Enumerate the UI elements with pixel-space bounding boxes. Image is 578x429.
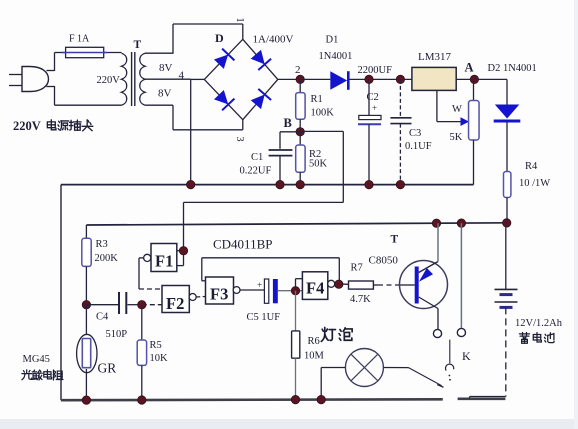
svg-text:F4: F4: [306, 279, 324, 298]
label 10M: [304, 351, 325, 362]
label C2: [367, 92, 379, 103]
svg-text:C5 1UF: C5 1UF: [247, 312, 281, 323]
label K: [462, 349, 471, 363]
label 10/1W: [519, 178, 550, 189]
wire C5 to F4: [278, 290, 303, 292]
label R6: [308, 336, 320, 347]
wire R3 to C4 node: [85, 266, 87, 304]
capacitor C3 0.1UF: [390, 118, 411, 185]
transistor Q1 C8050 body: [400, 261, 448, 309]
node B junction: [296, 128, 304, 136]
svg-text:50K: 50K: [309, 159, 328, 170]
bridge diode top-right: [251, 50, 271, 70]
transformer T primary winding: [122, 53, 127, 105]
svg-text:8V: 8V: [158, 88, 172, 100]
label 4.7K: [350, 294, 371, 305]
bridge diode top-left: [214, 49, 234, 69]
junction C2 top: [365, 75, 373, 83]
wire secondary top to bridge node 1: [145, 24, 243, 54]
switch K contact: [446, 364, 454, 370]
label 200K: [95, 253, 119, 264]
label F 1A: [69, 34, 90, 45]
label 8V upper: [159, 62, 173, 74]
svg-text:10 /1W: 10 /1W: [519, 178, 550, 189]
junction C2-ground: [365, 180, 373, 188]
label C8050: [369, 255, 399, 267]
label C1: [251, 152, 263, 163]
junction feedback-R7: [335, 280, 343, 288]
resistor R6 10M: [292, 331, 300, 358]
junction C1-ground: [276, 180, 284, 188]
wire GR bottom: [85, 369, 87, 400]
junction C3 top: [396, 75, 404, 83]
wire C4 to F2 input: [128, 304, 163, 306]
label 1A/400V: [253, 34, 294, 46]
wire C4 left: [86, 304, 118, 306]
svg-text:T: T: [391, 234, 399, 246]
label 0.22UF: [240, 166, 272, 177]
wire plug to fuse and primary: [47, 53, 122, 106]
ground rail: [61, 185, 474, 401]
svg-text:R7: R7: [351, 263, 363, 274]
label R5: [150, 340, 162, 351]
svg-text:C4: C4: [96, 312, 109, 323]
transistor Q1 arrow: [419, 268, 433, 282]
svg-text:10M: 10M: [304, 351, 325, 362]
svg-text:T: T: [134, 39, 142, 51]
junction F4 input: [291, 287, 299, 295]
label 12V/1.2Ah: [515, 318, 563, 329]
junction C4 node: [82, 301, 90, 309]
wire R5 top: [141, 305, 143, 340]
svg-text:K: K: [462, 349, 471, 363]
svg-text:C8050: C8050: [369, 255, 399, 267]
switch K pole wire: [449, 340, 451, 364]
svg-text:12V/1.2Ah: 12V/1.2Ah: [515, 318, 563, 329]
resistor R4 10/1W: [504, 172, 511, 198]
svg-text:R1: R1: [311, 94, 323, 105]
label 5K: [450, 132, 463, 143]
svg-text:10K: 10K: [150, 353, 169, 364]
plug P1 (220V mains plug): [9, 67, 49, 92]
transformer T secondary winding: [140, 53, 145, 105]
bridge diode bottom-right: [251, 89, 271, 109]
svg-text:F 1A: F 1A: [69, 34, 90, 45]
label guangmin dianzu: [22, 370, 63, 380]
lamp DS1 bulb: [345, 349, 383, 387]
svg-text:1: 1: [234, 18, 245, 23]
svg-text:C1: C1: [251, 152, 263, 163]
label 0.1UF: [405, 141, 432, 152]
wire F4 out to R7: [335, 283, 349, 286]
label B: [284, 116, 292, 130]
nand gate F1: [144, 244, 177, 272]
fuse F 1A: [62, 47, 107, 57]
wire R1 to node B: [299, 119, 301, 132]
wire F1 out to F2: [139, 258, 162, 289]
junction collector-rail: [432, 219, 440, 227]
junction R4-rail: [503, 219, 511, 227]
capacitor C5 1UF electrolytic: [257, 279, 278, 303]
wire battery top: [505, 223, 507, 289]
wire C3 top: [399, 79, 401, 117]
svg-text:F3: F3: [210, 285, 228, 304]
nand gate F3: [206, 277, 241, 304]
nand gate F2: [162, 286, 196, 314]
label node 2: [295, 64, 301, 76]
svg-text:100K: 100K: [311, 108, 335, 119]
wire GR top: [85, 305, 87, 334]
svg-text:0.22UF: 0.22UF: [240, 166, 272, 177]
svg-text:2200UF: 2200UF: [358, 65, 393, 76]
transformer T core: [132, 52, 135, 106]
wire R4 to plus rail: [506, 198, 508, 223]
node A junction: [470, 75, 478, 83]
svg-text:+: +: [257, 281, 262, 291]
svg-text:F1: F1: [155, 252, 173, 271]
wire battery bottom: [470, 307, 506, 398]
wire D1 to LM317: [350, 78, 412, 80]
wire F3 out to C5: [240, 289, 264, 291]
label LM317: [418, 51, 452, 63]
bridge rectifier wires: [191, 39, 301, 119]
svg-text:510P: 510P: [106, 329, 128, 340]
capacitor C1 0.22UF: [269, 150, 293, 185]
svg-text:D: D: [215, 31, 224, 45]
junction F1 input: [179, 247, 187, 255]
wire node2 to D1: [300, 78, 330, 80]
label 100K: [311, 108, 335, 119]
svg-text:8V: 8V: [159, 62, 173, 74]
svg-text:220V: 220V: [13, 119, 41, 133]
junction tap4-ground: [187, 180, 195, 188]
svg-text:F2: F2: [166, 294, 184, 313]
svg-text:R6: R6: [308, 336, 320, 347]
svg-text:4: 4: [179, 70, 185, 82]
positive rail: [86, 223, 511, 225]
wire secondary bottom to bridge node 3: [145, 105, 243, 130]
svg-text:GR: GR: [98, 361, 117, 376]
label 2200UF: [358, 65, 393, 76]
wire node B to F1 input net: [177, 131, 343, 265]
label A: [465, 61, 474, 75]
regulator U1 LM317: [412, 67, 456, 90]
junction C3-ground: [396, 180, 404, 188]
wire rail to R3: [85, 225, 87, 238]
resistor R3 200K: [82, 238, 91, 266]
label node 3: [234, 137, 245, 142]
transistor Q1 collector: [419, 223, 438, 272]
label W: [452, 104, 462, 115]
label 220V primary: [97, 75, 121, 86]
svg-text:A: A: [465, 61, 474, 75]
wire R6 bottom: [295, 358, 297, 399]
svg-text:4.7K: 4.7K: [350, 294, 371, 305]
label dengpao: [321, 328, 352, 342]
node 2 junction: [296, 75, 304, 83]
label D1: [326, 35, 339, 46]
label 10K: [150, 353, 169, 364]
svg-text:C3: C3: [409, 128, 421, 139]
wire LM317 out to A: [456, 78, 474, 80]
label 220V plug: [13, 119, 93, 133]
svg-text:200K: 200K: [95, 253, 119, 264]
switch K residue dots: [449, 375, 451, 381]
bottom rail right segment: [458, 397, 506, 400]
junction R6-bottom: [291, 395, 299, 403]
label R7: [351, 263, 363, 274]
wire node2 to R1: [299, 79, 301, 92]
svg-text:D2 1N4001: D2 1N4001: [488, 63, 537, 74]
svg-text:220V: 220V: [97, 75, 121, 86]
battery BT1 12V: [495, 289, 518, 307]
wire R2 to ground rail: [299, 172, 301, 184]
wire A to D2: [474, 79, 507, 104]
svg-text:5K: 5K: [450, 132, 463, 143]
svg-text:C2: C2: [367, 92, 379, 103]
potentiometer W 5K wiper arrow: [461, 117, 470, 126]
label D2 1N4001: [488, 63, 537, 74]
label GR: [98, 361, 117, 376]
wire B to C1: [280, 132, 300, 149]
svg-text:R3: R3: [96, 239, 108, 250]
wire lamp right: [383, 367, 408, 369]
wire secondary center tap node 4: [145, 79, 191, 184]
svg-text:W: W: [452, 104, 462, 115]
resistor R7 4.7K: [349, 281, 374, 289]
wire B to R2: [299, 132, 301, 145]
wire R6 top: [295, 291, 297, 331]
label R3: [96, 239, 108, 250]
capacitor C4 510P: [119, 292, 126, 314]
label 1N4001: [319, 51, 353, 62]
wire LM317 adj to wiper: [437, 90, 462, 121]
wire F2 out to F3: [196, 296, 205, 299]
svg-text:MG45: MG45: [23, 354, 50, 365]
label 8V lower: [158, 88, 172, 100]
junction R2-ground: [296, 180, 304, 188]
label xudianchi: [519, 333, 554, 344]
svg-text:B: B: [284, 116, 292, 130]
resistor R5 10K: [137, 340, 146, 365]
label CD4011BP: [213, 237, 272, 252]
potentiometer W 5K body: [469, 79, 480, 184]
label 510P: [106, 329, 128, 340]
svg-text:R4: R4: [525, 161, 538, 172]
junction R5-bottom: [138, 396, 146, 404]
label node 1: [234, 18, 245, 23]
wire F3 feedback: [202, 258, 339, 284]
svg-text:1N4001: 1N4001: [319, 51, 353, 62]
wire R5 bottom: [141, 365, 143, 400]
label R4: [525, 161, 538, 172]
junction R5 top: [138, 301, 146, 309]
bridge diode bottom-left: [214, 90, 234, 110]
resistor R2 50K: [296, 145, 305, 172]
switch K lever: [409, 368, 444, 388]
label C5 1UF: [247, 312, 281, 323]
wire R7 to base: [373, 284, 414, 286]
svg-text:3: 3: [234, 137, 245, 142]
label 50K: [309, 159, 328, 170]
svg-text:2: 2: [295, 64, 301, 76]
label T transistor: [391, 234, 399, 246]
svg-text:1A/400V: 1A/400V: [253, 34, 294, 46]
label D: [215, 31, 224, 45]
svg-text:CD4011BP: CD4011BP: [213, 237, 272, 252]
svg-text:+: +: [372, 103, 377, 113]
label MG45: [23, 354, 50, 365]
nand gate F4: [302, 272, 334, 300]
wire F4 input tie: [296, 279, 303, 291]
junction GR-bottom: [82, 396, 90, 404]
junction switch-rail: [457, 219, 465, 227]
wire rail to K terminal: [460, 223, 462, 328]
terminal emitter circle: [433, 329, 441, 337]
transistor Q1 emitter: [419, 297, 438, 329]
wire lamp left: [321, 368, 345, 400]
photoresistor GR (MG45) ellipse: [77, 334, 97, 372]
svg-text:D1: D1: [326, 35, 339, 46]
bottom rail left segment: [61, 398, 443, 402]
wire C2 top: [368, 79, 370, 115]
label C3: [409, 128, 421, 139]
svg-text:0.1UF: 0.1UF: [405, 141, 432, 152]
label node 4: [179, 70, 185, 82]
svg-text:R5: R5: [150, 340, 162, 351]
diode D1 1N4001: [330, 71, 348, 90]
label C4: [96, 312, 109, 323]
svg-text:LM317: LM317: [418, 51, 452, 63]
wire D2 to R4: [506, 123, 508, 172]
label R1: [311, 94, 323, 105]
resistor R1 100K: [296, 93, 305, 120]
label R2: [309, 149, 321, 160]
label T: [134, 39, 142, 51]
terminal K circle: [457, 328, 465, 336]
diode D2 1N4001: [494, 105, 521, 122]
junction lamp-bottom: [317, 395, 325, 403]
capacitor C2 2200UF electrolytic: [358, 103, 381, 185]
